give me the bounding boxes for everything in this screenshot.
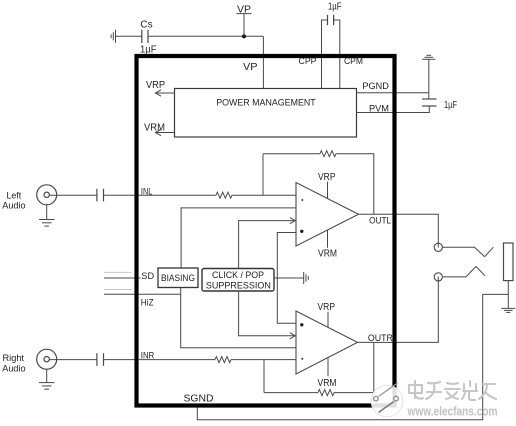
wire SD echo (faint) bbox=[104, 271, 132, 273]
block BIASING bbox=[158, 268, 198, 288]
wire OUTR bbox=[358, 281, 439, 343]
wire feedback to output R bbox=[334, 342, 374, 392]
svg-text:SD: SD bbox=[141, 271, 154, 282]
svg-text:VRM: VRM bbox=[318, 378, 337, 389]
wire load to ground bbox=[507, 281, 509, 308]
svg-text:1µF: 1µF bbox=[140, 44, 157, 55]
op-amp U2 bbox=[296, 311, 358, 374]
connector Right Audio jack bbox=[37, 349, 57, 369]
wire right input to cap bbox=[49, 359, 97, 361]
svg-text:BIASING: BIASING bbox=[161, 273, 195, 284]
capacitor input coupling R bbox=[97, 353, 104, 366]
wire VP label stub bbox=[243, 14, 245, 37]
svg-text:INL: INL bbox=[141, 186, 153, 197]
svg-text:POWER MANAGEMENT: POWER MANAGEMENT bbox=[216, 98, 316, 109]
svg-text:SUPPRESSION: SUPPRESSION bbox=[206, 280, 271, 291]
wire suppression bus (U1-U2) bbox=[277, 233, 296, 324]
wire SD bbox=[104, 277, 141, 279]
net label VP (top) bbox=[237, 4, 252, 15]
ground (above PGND cap) bbox=[422, 55, 435, 59]
wire INR to resistor bbox=[104, 359, 216, 361]
svg-text:www.elecfans.com: www.elecfans.com bbox=[407, 404, 498, 418]
watermark logo circle bbox=[371, 383, 403, 417]
block POWER MANAGEMENT bbox=[175, 89, 357, 138]
wire jack switch top bbox=[442, 247, 484, 256]
wire VRM stub U1 bbox=[327, 230, 329, 248]
wire feedback tap R bbox=[263, 360, 265, 393]
node jack tip (OUTL) bbox=[434, 243, 442, 251]
svg-text:Cs: Cs bbox=[140, 19, 152, 30]
label Left Audio bbox=[2, 190, 25, 211]
svg-text:INR: INR bbox=[141, 351, 155, 362]
svg-text:VRP: VRP bbox=[146, 80, 165, 91]
svg-text:SGND: SGND bbox=[184, 393, 214, 404]
wire jack switch bottom bbox=[442, 266, 476, 277]
ground (sideways, Cs branch) bbox=[111, 30, 115, 43]
svg-text:HiZ: HiZ bbox=[141, 298, 154, 309]
wire resistor to op-amp U1 bbox=[232, 194, 296, 196]
watermark text (stylized) bbox=[409, 381, 496, 400]
capacitor flying (CPP-CPM) bbox=[328, 15, 334, 25]
wire INL to resistor bbox=[104, 194, 217, 196]
wire SGND loop bbox=[197, 294, 508, 419]
ground (sideways, suppression) bbox=[304, 272, 309, 284]
ground (load) bbox=[501, 308, 515, 312]
svg-text:VRP: VRP bbox=[318, 172, 336, 183]
wire PGND to cap bbox=[428, 59, 430, 99]
svg-text:1µF: 1µF bbox=[328, 2, 342, 13]
wire suppression ground stub bbox=[274, 277, 304, 279]
svg-text:VRP: VRP bbox=[318, 302, 336, 313]
svg-text:PGND: PGND bbox=[362, 81, 389, 92]
wire feedback tap L bbox=[262, 154, 264, 196]
wire VP pin drop bbox=[262, 36, 264, 88]
label Right Audio bbox=[2, 353, 25, 374]
wire biasing to U1 input bbox=[181, 208, 296, 268]
wire click/pop to U1 (arrow) bbox=[239, 218, 296, 269]
wire CPP lead bbox=[322, 20, 328, 89]
wire click/pop to U2 (arrow) bbox=[239, 291, 296, 339]
ground (right audio) bbox=[39, 369, 55, 389]
svg-text:VP: VP bbox=[243, 62, 258, 73]
wire feedback top L bbox=[263, 153, 320, 155]
node jack ring (OUTR) bbox=[434, 273, 442, 281]
connector Left Audio jack bbox=[37, 185, 57, 205]
capacitor Cs bbox=[142, 30, 148, 43]
chip boundary box bbox=[137, 56, 395, 406]
wire VRP stub U1 bbox=[327, 182, 329, 199]
wire feedback bottom R bbox=[264, 392, 318, 394]
svg-text:Audio: Audio bbox=[2, 201, 25, 212]
ground (left audio) bbox=[39, 205, 55, 226]
svg-text:VRM: VRM bbox=[318, 249, 337, 260]
wire jack switch bottom lever bbox=[476, 266, 485, 275]
wire Cs left lead bbox=[116, 35, 142, 37]
resistor load (headphone) bbox=[504, 243, 514, 281]
wire feedback to output L bbox=[336, 154, 374, 215]
svg-text:OUTR: OUTR bbox=[368, 333, 393, 344]
capacitor input coupling L bbox=[97, 189, 104, 202]
wire VRP stub U2 bbox=[327, 312, 329, 328]
wire PGND bbox=[357, 92, 429, 94]
wire VRM arrow bbox=[156, 129, 175, 135]
wire jack switch top lever bbox=[485, 247, 494, 257]
wire biasing to U2 input bbox=[181, 288, 296, 348]
wire VRP arrow bbox=[156, 90, 175, 96]
resistor input R bbox=[215, 357, 231, 363]
svg-text:Audio: Audio bbox=[2, 364, 25, 375]
svg-text:1µF: 1µF bbox=[444, 100, 457, 111]
capacitor 1uF (PVM bypass) bbox=[422, 99, 437, 106]
op-amp U1 bbox=[296, 183, 359, 247]
svg-text:VRM: VRM bbox=[144, 122, 165, 133]
node VP (junction) bbox=[242, 34, 246, 38]
resistor feedback L bbox=[320, 151, 336, 157]
wire resistor to op-amp U2 bbox=[231, 359, 296, 361]
wire OUTL bbox=[359, 214, 439, 243]
wire Cs right lead to VP node bbox=[148, 35, 263, 37]
wire left input to cap bbox=[49, 194, 97, 196]
block CLICK/POP SUPPRESSION bbox=[202, 269, 274, 292]
svg-text:OUTL: OUTL bbox=[369, 216, 391, 227]
svg-text:CLICK / POP: CLICK / POP bbox=[212, 270, 264, 281]
wire PVM bbox=[357, 106, 430, 113]
wire VRM stub U2 bbox=[327, 357, 329, 376]
resistor input L bbox=[216, 192, 232, 198]
wire HiZ bbox=[104, 293, 181, 295]
resistor feedback R bbox=[318, 390, 334, 396]
wire CPM lead bbox=[334, 20, 340, 89]
